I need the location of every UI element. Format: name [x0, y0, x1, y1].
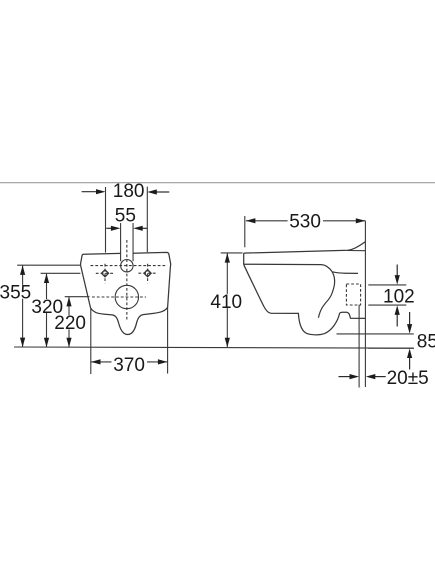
inlet circle: [121, 260, 133, 272]
dim 355 line: [22, 266, 24, 347]
supply pipe line left (55 ext): [120, 223, 122, 261]
crosshair vertical hole right: [147, 264, 149, 284]
back pipe line: [358, 305, 360, 388]
svg-text:220: 220: [54, 313, 86, 334]
svg-text:355: 355: [0, 282, 31, 303]
dim 410 down arrow: [225, 338, 230, 348]
dim 410 up arrow: [225, 253, 230, 263]
dim 180 ext line right: [146, 187, 148, 253]
dim 102 down arrow: [395, 265, 400, 285]
outlet circle: [115, 285, 138, 308]
page divider line: [0, 182, 435, 184]
dim 320 label: [31, 297, 64, 318]
crosshair vertical hole left: [104, 264, 106, 284]
wall line: [364, 221, 366, 387]
dim 320 line: [46, 274, 48, 348]
dim 370 ext line left: [90, 308, 92, 374]
side view front face and bottom: [244, 265, 365, 335]
dim 355 down arrow: [20, 338, 25, 348]
side view profile: [244, 253, 358, 273]
svg-text:85: 85: [417, 331, 435, 352]
dim 220 up arrow: [66, 297, 71, 307]
dim 55 right arrow: [133, 226, 147, 231]
dim 102 up arrow: [395, 305, 400, 326]
dim 20±5 right arrow: [366, 374, 386, 379]
dim 410 label: [210, 292, 243, 313]
centerline horizontal through inlet: [91, 265, 167, 267]
supply pipe line right (55 ext): [132, 223, 134, 261]
dim 85 ext line bottom: [368, 347, 414, 349]
mounting hole left circle: [103, 271, 108, 276]
dim 530 line left segment: [246, 220, 288, 222]
dim 530 line right segment: [323, 220, 365, 222]
dim 180 label: [108, 181, 145, 202]
dim 320 ext line: [41, 272, 81, 274]
dim 20±5 left arrow: [339, 374, 360, 379]
crosshair horizontal hole right: [138, 272, 156, 274]
dim 530 ext line: [244, 216, 246, 247]
dim 370 line: [91, 361, 167, 363]
dim 220 ext line: [65, 296, 90, 298]
mounting hole right circle: [145, 271, 150, 276]
dim 85 ext line top: [337, 333, 414, 335]
mounting hole right diamond: [144, 270, 151, 277]
crosshair horizontal outlet circle: [92, 296, 146, 298]
dim 410 ext line: [221, 252, 243, 254]
dim 370 label: [112, 355, 148, 376]
dim 370 ext line right: [167, 308, 169, 374]
bottom reference line: [14, 347, 414, 348]
centerline vertical front view: [126, 240, 128, 320]
svg-text:370: 370: [113, 355, 145, 376]
side view inner bowl curve: [318, 272, 334, 318]
dim 530 right arrow: [356, 218, 366, 223]
dim 355 up arrow: [20, 265, 25, 275]
dim 320 up arrow: [44, 274, 49, 284]
dim 102 ext line bottom: [368, 304, 406, 306]
dim 55 left arrow: [106, 226, 120, 231]
outlet dashed box: [346, 284, 360, 305]
dim 410 line: [226, 253, 228, 347]
front view outline: [81, 252, 171, 334]
dim 85 up arrow: [407, 349, 412, 370]
crosshair horizontal hole left: [96, 272, 114, 274]
svg-text:55: 55: [115, 206, 136, 227]
dim 370 right arrow: [158, 359, 168, 364]
dim 355 ext line: [17, 264, 80, 266]
dim 220 label: [54, 313, 87, 334]
side view seat back line to wall: [347, 250, 365, 252]
dim 370 left arrow: [91, 359, 101, 364]
dim 220 down arrow: [66, 338, 71, 348]
dim 102 ext line top: [368, 284, 406, 286]
side view top surface: [244, 242, 366, 253]
svg-text:530: 530: [289, 211, 321, 232]
dim 320 down arrow: [44, 338, 49, 348]
dim 355 label: [0, 282, 31, 303]
dim 530 left arrow: [246, 218, 256, 223]
dim 220 line: [68, 297, 70, 347]
dim 180 right arrow: [147, 189, 169, 194]
svg-text:410: 410: [210, 292, 242, 313]
dim 180 left arrow: [82, 189, 106, 194]
svg-text:20±5: 20±5: [387, 368, 429, 389]
svg-text:180: 180: [113, 181, 145, 202]
mounting hole left diamond: [101, 270, 108, 277]
svg-text:102: 102: [383, 287, 415, 308]
dim 180 ext line left: [105, 187, 107, 253]
dim 55 label: [113, 206, 139, 227]
dim 85 down arrow: [407, 312, 412, 334]
